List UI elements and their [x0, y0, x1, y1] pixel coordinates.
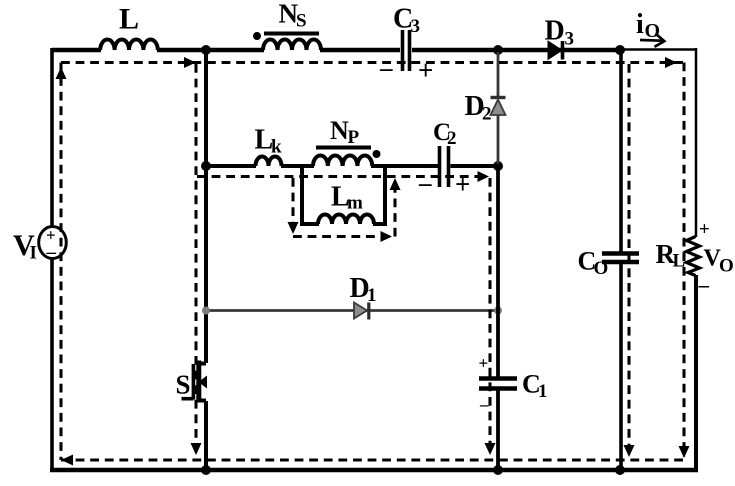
svg-text:S: S — [296, 11, 307, 32]
svg-text:L: L — [119, 3, 139, 36]
diode D1 branch (grey horizontal) — [202, 273, 502, 320]
svg-text:+: + — [699, 219, 710, 240]
resistor RL with load labels — [656, 219, 734, 297]
svg-text:S: S — [176, 370, 191, 400]
svg-text:+: + — [455, 169, 470, 199]
dashed middle horizontal with right arrow, turning down to C1 — [197, 171, 496, 455]
dashed loop around Lm — [288, 178, 401, 242]
dashed vertical x=196 with down arrow — [191, 64, 202, 455]
source VI — [13, 226, 66, 264]
capacitor C3 — [379, 4, 433, 86]
capacitor C2 — [418, 119, 470, 199]
svg-text:+: + — [418, 55, 433, 85]
node dot middle-right x=498 y=166 — [493, 161, 503, 171]
label iO with arrow — [636, 9, 664, 47]
switch S (MOSFET) — [176, 361, 208, 403]
node dot bottom x=620 — [615, 465, 625, 475]
svg-text:k: k — [271, 137, 282, 158]
capacitor CO — [578, 50, 640, 472]
capacitor C1 — [479, 166, 548, 472]
wire left (V_I branch) — [50, 48, 54, 472]
svg-text:I: I — [30, 243, 37, 264]
wire top (V_I+ to D3 anode, thick) — [52, 48, 620, 53]
wire switch branch vertical x=206 — [204, 48, 208, 472]
node dot top x=206 — [201, 45, 211, 55]
svg-text:3: 3 — [565, 29, 575, 50]
svg-text:m: m — [347, 193, 363, 214]
coupled winding NS — [253, 0, 321, 50]
svg-text:1: 1 — [538, 381, 548, 402]
dashed vertical x=629 with down arrow — [624, 64, 635, 457]
wire right (load branch) — [695, 48, 698, 472]
svg-text:–: – — [418, 170, 432, 197]
coupled winding NP — [313, 116, 381, 166]
svg-text:O: O — [719, 256, 734, 277]
diode D2 branch (grey) — [465, 52, 506, 164]
inductor L — [100, 3, 158, 51]
svg-text:+: + — [479, 354, 489, 373]
svg-text:1: 1 — [367, 285, 377, 306]
svg-text:–: – — [698, 273, 710, 297]
node dot top x=620 — [615, 45, 625, 55]
dashed loop: right vertical with down arrow — [679, 63, 690, 459]
wire bottom (ground return) — [50, 468, 698, 473]
node dot bottom x=498 — [493, 465, 503, 475]
svg-text:2: 2 — [482, 104, 492, 125]
dashed loop: top horizontal — [61, 57, 684, 68]
inductor Lk — [255, 125, 283, 166]
svg-text:N: N — [330, 116, 349, 145]
svg-text:O: O — [594, 258, 609, 279]
svg-text:–: – — [46, 242, 57, 263]
wire top-right thin (node to output corner) — [620, 48, 696, 51]
diode D3 — [545, 16, 575, 60]
inductor Lm with parallel branch — [300, 164, 387, 226]
node dot bottom x=206 — [201, 465, 211, 475]
svg-text:–: – — [379, 55, 393, 82]
wire middle (Lk-Np-C2 row) — [206, 164, 498, 168]
svg-text:i: i — [636, 9, 644, 40]
node dot middle-left x=206 y=166 — [201, 161, 211, 171]
node dot top x=498 — [493, 45, 503, 55]
svg-text:–: – — [479, 395, 489, 414]
svg-text:P: P — [348, 127, 360, 148]
svg-text:3: 3 — [411, 16, 421, 37]
svg-text:D: D — [545, 16, 565, 47]
dashed loop: left vertical with up arrow — [56, 63, 67, 461]
dashed loop: bottom horizontal with left arrow — [61, 455, 684, 466]
svg-text:O: O — [645, 20, 661, 42]
svg-text:2: 2 — [447, 128, 457, 149]
